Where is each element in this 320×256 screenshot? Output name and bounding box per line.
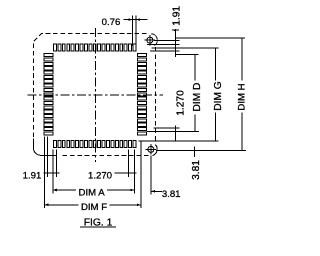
svg-text:3.81: 3.81	[191, 160, 202, 180]
svg-text:0.76: 0.76	[102, 17, 121, 28]
svg-text:DIM H: DIM H	[236, 83, 247, 110]
svg-text:1.270: 1.270	[88, 171, 112, 182]
svg-text:1.270: 1.270	[176, 90, 187, 116]
svg-text:DIM G: DIM G	[213, 81, 224, 111]
svg-text:1.91: 1.91	[171, 6, 182, 26]
svg-text:3.81: 3.81	[162, 189, 181, 200]
svg-text:DIM F: DIM F	[81, 202, 107, 213]
svg-text:DIM A: DIM A	[79, 187, 106, 198]
svg-text:1.91: 1.91	[23, 171, 42, 182]
svg-text:DIM D: DIM D	[192, 83, 203, 112]
